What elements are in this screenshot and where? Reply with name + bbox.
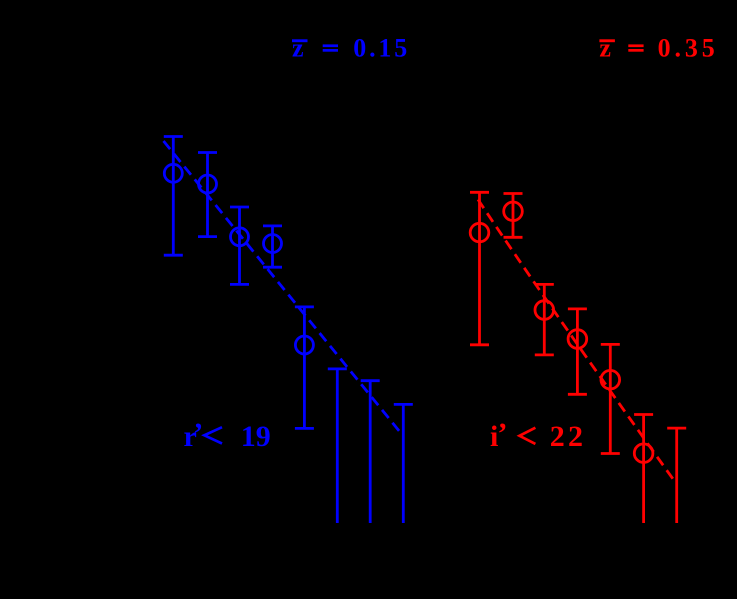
blue errorbar point 3 xyxy=(230,207,249,284)
label zbar = 0.15 (blue) xyxy=(292,34,410,63)
svg-text:z: z xyxy=(599,34,611,63)
blue lower-limit bar 7 xyxy=(361,381,380,523)
blue errorbar point 4 xyxy=(263,226,282,267)
svg-text:’: ’ xyxy=(498,417,508,450)
svg-text:z: z xyxy=(292,34,304,63)
red lower-limit bar 7 xyxy=(667,428,686,523)
red errorbar point 5 xyxy=(601,344,620,453)
label i' < 22 (red) xyxy=(490,417,586,453)
label zbar = 0.35 (red) xyxy=(599,34,718,63)
svg-text:22: 22 xyxy=(550,420,586,453)
svg-text:19: 19 xyxy=(241,420,271,453)
red series group xyxy=(470,192,686,523)
blue errorbar point 1 xyxy=(164,137,183,256)
blue errorbar point 5 xyxy=(295,307,314,429)
svg-text:’: ’ xyxy=(193,417,203,450)
blue lower-limit bar 8 xyxy=(394,404,413,523)
svg-text:0.15: 0.15 xyxy=(353,34,410,63)
blue dashed power-law fit line xyxy=(164,141,403,435)
blue series group xyxy=(164,137,413,524)
label r' < 19 (blue) xyxy=(184,417,271,453)
red errorbar point 2 xyxy=(504,194,523,238)
svg-text:0.35: 0.35 xyxy=(658,34,719,63)
red dashed power-law fit line xyxy=(478,200,673,480)
red errorbar point 1 xyxy=(470,192,489,344)
red errorbar point 3 xyxy=(535,284,554,355)
blue lower-limit bar 6 xyxy=(328,369,347,523)
red errorbar point 4 xyxy=(568,309,587,394)
red errorbar point 6 (clipped at frame bottom) xyxy=(634,415,653,524)
blue errorbar point 2 xyxy=(198,153,217,237)
